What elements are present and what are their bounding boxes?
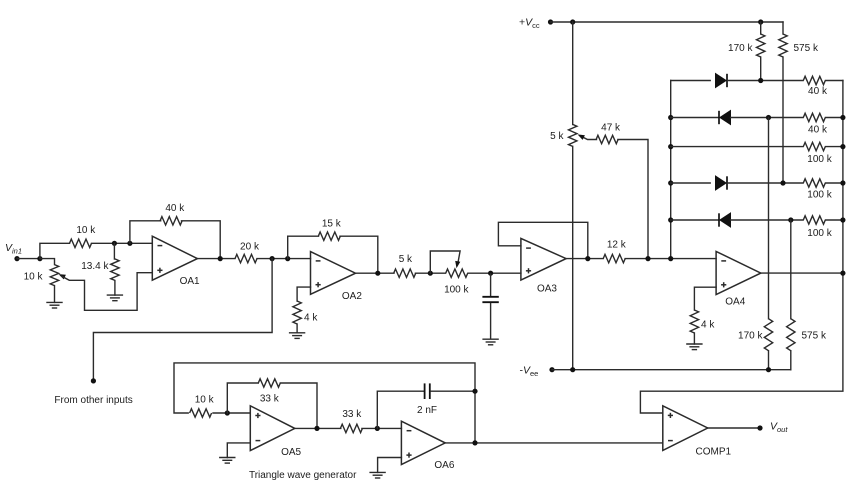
ground (OA6) <box>369 472 385 478</box>
svg-text:100 k: 100 k <box>807 228 832 239</box>
wire 10k pot to ground <box>54 286 56 303</box>
svg-text:33 k: 33 k <box>260 394 280 405</box>
wire row1 mid <box>728 80 804 82</box>
wire ladder right rail to COMP1 + input <box>640 81 843 414</box>
wire Vin1 to 10k pot top <box>40 259 55 265</box>
svg-text:COMP1: COMP1 <box>696 447 732 458</box>
wire row2 left <box>671 117 719 119</box>
junction 2nF tap <box>375 426 380 431</box>
svg-text:2 nF: 2 nF <box>417 405 437 416</box>
resistor 5 k (5k) <box>394 254 416 277</box>
resistor 170 k (170k upper) <box>728 34 765 57</box>
svg-text:From other inputs: From other inputs <box>54 395 132 406</box>
ground (13.4k) <box>107 295 123 301</box>
op-amp OA5 <box>250 406 301 458</box>
ground (OA4 4k) <box>686 344 702 350</box>
resistor 10 k (pot 10k body) <box>24 265 59 286</box>
wire 10k to OA5 + input <box>213 412 250 414</box>
junction filter cap <box>488 271 493 276</box>
svg-text:OA2: OA2 <box>342 291 362 302</box>
svg-text:100 k: 100 k <box>807 189 832 200</box>
svg-text:170 k: 170 k <box>738 330 763 341</box>
svg-text:10 k: 10 k <box>76 225 96 236</box>
diode D2 (anode right) <box>719 111 731 125</box>
resistor 4 k (4k OA2) <box>293 301 318 324</box>
wire row5 right <box>826 219 843 221</box>
svg-text:15 k: 15 k <box>322 219 342 230</box>
wire OA6 + input to ground <box>378 458 402 473</box>
wire to other inputs node <box>93 259 272 381</box>
svg-text:13.4 k: 13.4 k <box>81 261 109 272</box>
wire OA5 - input to ground <box>227 443 250 458</box>
svg-text:5 k: 5 k <box>399 254 413 265</box>
resistor 40 k (40k row1) <box>803 76 828 97</box>
wire OA1 feedback left <box>130 221 161 244</box>
junction -Vee / 5k pot <box>570 367 575 372</box>
wire OA5 feedback right <box>280 383 317 428</box>
wire row4 mid <box>728 182 804 184</box>
wire 20k to OA2 - input <box>257 258 311 260</box>
wire 100k pot wiper loop <box>430 251 460 273</box>
junction 2nF / oscillator loop <box>472 389 477 394</box>
junction left rail row2 <box>668 115 673 120</box>
wire 5k pot wiper <box>581 136 597 139</box>
wire +Vcc top rail <box>551 21 784 23</box>
svg-text:4 k: 4 k <box>304 312 318 323</box>
svg-text:4 k: 4 k <box>701 319 715 330</box>
wire OA2 output <box>356 272 395 274</box>
resistor 10 k (10k osc) <box>190 394 215 417</box>
wire OA4 output to right rail <box>761 272 843 274</box>
svg-text:10 k: 10 k <box>24 271 44 282</box>
junction right rail row4 <box>840 180 845 185</box>
wire 170k lower to -Vee <box>768 351 770 370</box>
svg-text:575 k: 575 k <box>794 43 819 54</box>
junction left rail row3 <box>668 144 673 149</box>
wire 5k to 100k pot <box>415 272 445 274</box>
wire OA4 + input to 4k <box>694 287 716 310</box>
svg-text:40 k: 40 k <box>808 125 828 136</box>
wire 2nF left <box>377 391 423 428</box>
wire OA1 feedback right <box>182 221 221 259</box>
svg-text:100 k: 100 k <box>807 154 832 165</box>
wire 13.4k to ground <box>114 281 116 296</box>
wire 33k to OA6 - input <box>362 427 402 429</box>
wire 4k to ground <box>296 324 298 333</box>
wire COMP1 output <box>708 427 760 429</box>
wiper arrow of 10k pot <box>59 274 66 279</box>
wire 100k pot to OA3 + input <box>468 272 521 274</box>
svg-text:33 k: 33 k <box>342 409 362 420</box>
junction row4 / 575k upper <box>780 180 785 185</box>
resistor 40 k (40k row2) <box>803 113 828 135</box>
wire row3 <box>671 146 803 148</box>
junction right rail row2 <box>840 115 845 120</box>
junction OA2 feedback tap <box>285 256 290 261</box>
junction 40k feedback tap <box>127 241 132 246</box>
resistor 33 k (33k integrator input) <box>340 409 362 433</box>
op-amp OA4 <box>716 251 761 307</box>
wire +Vcc down to 5k pot <box>572 22 574 125</box>
junction 100k pot left <box>428 271 433 276</box>
svg-text:OA3: OA3 <box>537 283 557 294</box>
resistor 170 k (170k lower) <box>738 319 773 351</box>
svg-text:10 k: 10 k <box>195 394 215 405</box>
wire row5 junction down to 575k lower <box>790 220 792 319</box>
wire +Vcc to 170k top <box>760 22 762 34</box>
svg-text:100 k: 100 k <box>444 285 469 296</box>
junction 20k / other inputs <box>270 256 275 261</box>
resistor 5 k (pot 5k body) <box>550 124 577 146</box>
op-amp COMP1 <box>663 406 732 458</box>
svg-text:20 k: 20 k <box>240 242 260 253</box>
svg-text:170 k: 170 k <box>728 43 753 54</box>
junction row2 / 170k lower rail <box>766 115 771 120</box>
svg-text:Triangle wave generator: Triangle wave generator <box>249 470 357 481</box>
resistor 15 k (15k feedback OA2) <box>318 219 341 241</box>
junction OA4 output / right rail <box>840 271 845 276</box>
junction OA2 output / feedback <box>375 271 380 276</box>
wire 10k to OA1 - input <box>92 242 153 244</box>
wire OA2 feedback right <box>340 236 378 273</box>
svg-text:575 k: 575 k <box>802 330 827 341</box>
junction OA5 + / 33k feedback <box>225 410 230 415</box>
wire row2 mid <box>731 117 804 119</box>
wire row5 left <box>671 219 719 221</box>
wire OA2 + input to 4k <box>297 287 310 301</box>
wire 170k to diode row 1 <box>760 57 762 81</box>
svg-text:5 k: 5 k <box>550 131 564 142</box>
junction ladder left rail <box>668 256 673 261</box>
wire row4 left <box>671 182 711 184</box>
wiper arrow of 100k pot <box>455 261 460 268</box>
junction right rail row3 <box>840 144 845 149</box>
ground (10k pot) <box>46 302 62 308</box>
wiper arrow of 5k pot <box>578 134 585 140</box>
junction -Vee / 170k lower <box>766 367 771 372</box>
junction row1 / 170k <box>758 78 763 83</box>
resistor 12 k (12k) <box>603 239 627 262</box>
resistor 100 k (100k row4) <box>803 179 832 201</box>
wire OA3 output <box>566 258 603 260</box>
svg-text:OA1: OA1 <box>180 276 200 287</box>
resistor 47 k (47k wiper resistor) <box>596 123 621 144</box>
wire 47k to OA3 output node <box>618 140 648 259</box>
wire 5k pot to -Vee rail <box>572 146 574 369</box>
op-amp OA1 <box>152 236 200 287</box>
op-amp OA3 <box>521 238 566 294</box>
resistor 40 k (40k feedback OA1) <box>160 203 185 225</box>
wire OA1 output <box>197 258 235 260</box>
svg-text:OA6: OA6 <box>434 460 454 471</box>
svg-text:12 k: 12 k <box>607 239 627 250</box>
junction OA6 output / loop <box>472 440 477 445</box>
wire 12k to OA4 - input <box>625 258 716 260</box>
junction OA1 output / feedback <box>218 256 223 261</box>
junction Vin1 <box>37 256 42 261</box>
wire junction to 13.4k <box>113 243 115 259</box>
wire ladder left rail <box>670 81 672 259</box>
junction 13.4k tap <box>112 241 117 246</box>
ground (OA2 4k) <box>289 333 305 339</box>
wire 575k down to diode row 4 <box>782 57 784 183</box>
diode D1 (anode left) <box>716 74 728 88</box>
capacitor (filter, at OA3 input) <box>482 273 498 339</box>
junction row5 / 575k lower rail <box>788 217 793 222</box>
wire Vin1 input <box>17 258 40 260</box>
resistor 100 k (100k row3) <box>803 142 832 164</box>
wire row1 right <box>826 80 843 82</box>
resistor 100 k (pot 100k body) <box>444 269 469 296</box>
wire row1 left <box>671 80 711 82</box>
wire row3 right <box>826 146 843 148</box>
wire OA5 feedback left <box>227 383 258 413</box>
svg-text:OA5: OA5 <box>281 447 301 458</box>
wire 2nF right <box>431 390 475 392</box>
wire 575k lower to -Vee <box>790 351 792 370</box>
svg-text:40 k: 40 k <box>165 203 185 214</box>
ground (OA5) <box>219 458 235 464</box>
junction OA5 output / feedback <box>314 426 319 431</box>
resistor 575 k (575k lower) <box>787 319 827 351</box>
capacitor 2 nF <box>417 383 437 416</box>
op-amp OA2 <box>311 252 363 302</box>
junction OA3 output / feedback <box>585 256 590 261</box>
resistor 575 k (575k upper) <box>779 34 819 57</box>
wire row5 mid <box>731 219 804 221</box>
resistor 10 k (10k input) <box>70 225 97 248</box>
diode D4 (anode right) <box>719 213 731 227</box>
node Vin1 terminal <box>14 256 19 261</box>
node from-other-inputs <box>91 378 96 383</box>
wire row2 junction down to 170k lower <box>768 118 770 319</box>
svg-text:47 k: 47 k <box>601 123 621 134</box>
wire row4 right <box>826 182 843 184</box>
junction left rail row4 <box>668 180 673 185</box>
svg-text:40 k: 40 k <box>808 86 828 97</box>
wire OA5 output <box>295 427 341 429</box>
wire OA3 unity feedback <box>498 222 587 258</box>
wire oscillator loop feedback <box>174 363 475 443</box>
resistor 4 k (4k OA4) <box>690 310 715 333</box>
wire 10k pot wiper to OA1 + input <box>62 273 153 311</box>
diode D3 (anode left) <box>716 176 728 190</box>
wire -Vee rail <box>552 369 791 371</box>
wire OA2 feedback left <box>288 236 319 258</box>
ground (filter cap) <box>482 339 498 345</box>
wire OA6 output to COMP1 - input <box>445 442 663 444</box>
node Vout terminal <box>757 425 762 430</box>
junction +Vcc / 5k pot branch <box>570 19 575 24</box>
wire Vin1 up to 10k <box>40 243 70 258</box>
junction +Vcc / 170k branch <box>758 19 763 24</box>
op-amp OA6 <box>401 421 454 471</box>
resistor 33 k (33k feedback OA5) <box>258 379 280 405</box>
resistor 100 k (100k row5) <box>803 216 832 239</box>
resistor 13.4 k (13.4k) <box>81 259 119 281</box>
junction 47k tap <box>645 256 650 261</box>
node -Vee terminal <box>549 367 554 372</box>
node +Vcc terminal <box>548 19 553 24</box>
junction left rail row5 <box>668 217 673 222</box>
wire +Vcc corner to 575k top <box>782 22 784 34</box>
svg-text:OA4: OA4 <box>725 297 745 308</box>
wire row2 right <box>826 117 843 119</box>
resistor 20 k (20k) <box>235 242 260 263</box>
wire 4k to ground <box>693 333 695 344</box>
junction right rail row5 <box>840 217 845 222</box>
